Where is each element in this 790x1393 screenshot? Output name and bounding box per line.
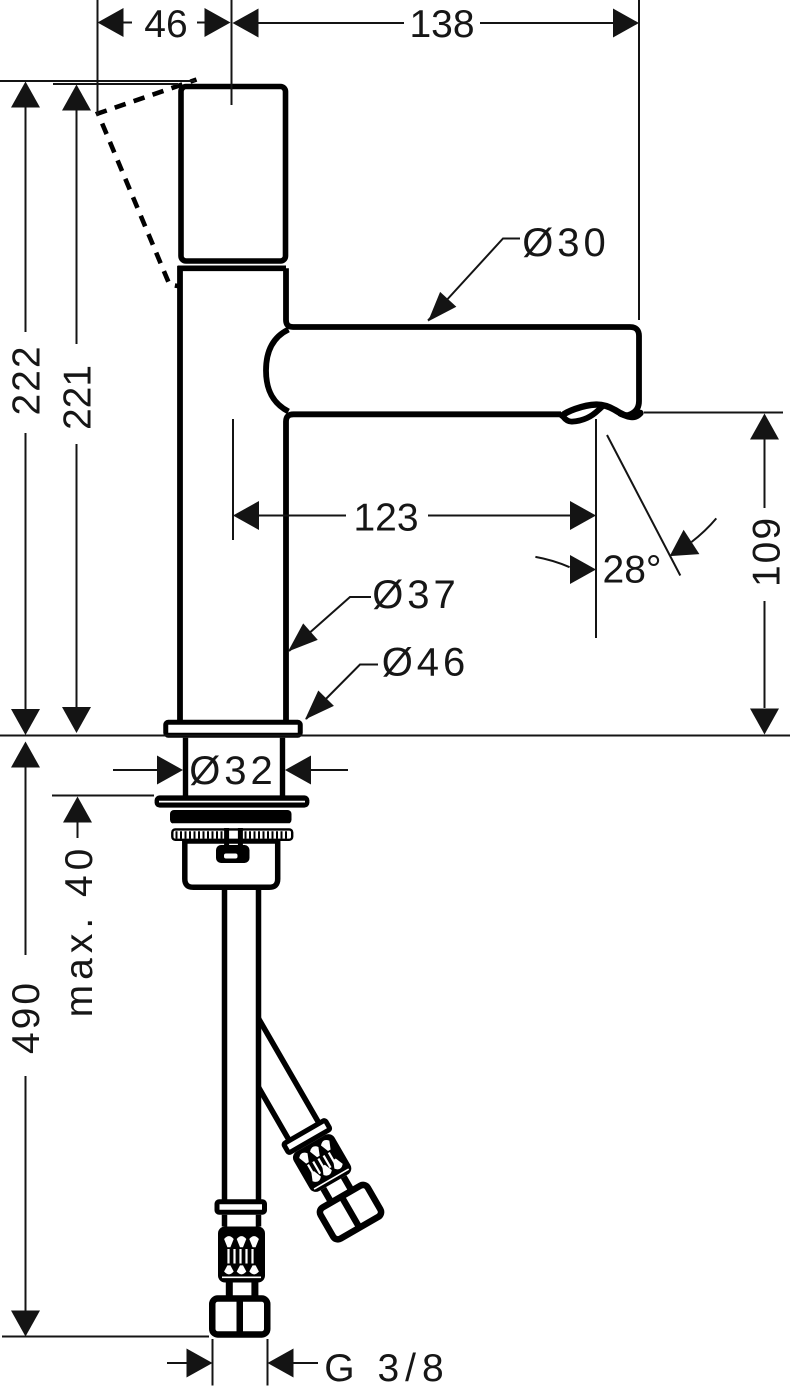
dim 123 lines [259,515,570,517]
pop-up rod clamp [216,845,250,863]
arrow 46 right [205,8,231,37]
vertical supply hose [212,886,267,1336]
arrow O46 [297,690,334,727]
arrow 46 left [98,8,124,37]
dim 109 extension line outlet [644,412,783,414]
arrow 490 bottom [11,1311,40,1337]
base flange [166,722,301,735]
faucet body and spout outline [98,80,641,797]
body collar band [178,265,286,271]
dim O32 lines [113,769,348,771]
svg-text:Ø32: Ø32 [189,749,277,793]
arrow G38 left [187,1349,213,1378]
spout bend inner curve [266,330,289,412]
dim G38 extension lines [213,1339,268,1386]
extension line hose nut bottom [2,1336,209,1338]
svg-text:Ø37: Ø37 [372,573,460,617]
leader O46 [306,665,378,720]
arrow 221 bottom [62,707,91,733]
knurled locknut ring [172,829,292,839]
vertical hose tube segment [225,1215,259,1227]
diagonal hose tube [229,1018,318,1139]
arrow 123 right [570,501,596,530]
arrow 222 top [11,82,40,108]
diagonal hose braid [290,1132,353,1195]
base shank sides [186,738,283,796]
dim 123 extension line axis [232,419,234,540]
pop-up rod stem [227,828,241,846]
body left edge [177,266,183,720]
arrow 490 top [11,742,40,768]
body right edge lower + spout bottom [286,414,561,720]
extension line top of tilted handle [0,80,195,82]
body right edge upper + spout top + spout right edge [286,268,639,415]
diagonal hose nut [318,1183,383,1241]
arrow angle left [570,555,596,584]
aerator lip [563,406,603,422]
faucet base mounting assembly [155,795,310,887]
diagonal hose crimp collar [283,1120,330,1153]
arrow 123 left [233,501,259,530]
arrow O37 [281,623,318,659]
arrow O30 [420,292,456,329]
arrow 138 right [613,9,639,38]
handle [181,87,286,262]
angle arc right [692,518,717,542]
dim 109 line [764,440,766,709]
dim 46 lines [123,22,205,24]
arrow 138 left [233,9,259,38]
vertical hose crimp collar [217,1202,265,1213]
arrow G38 right [268,1349,294,1378]
svg-text:221: 221 [57,365,100,430]
svg-text:Ø46: Ø46 [382,641,470,685]
svg-text:490: 490 [5,980,48,1054]
arrow O32 right [285,756,311,785]
rubber washer bar [155,795,310,807]
arrow angle right [662,530,700,568]
extension line top of handle [53,83,178,85]
dim max40 line [77,823,79,839]
vertical hose braid [218,1227,265,1283]
arrow max40 [63,797,92,823]
leader O30 [428,239,520,321]
handle tilted position (dashed) [98,80,197,287]
vertical hose neck [229,1283,255,1298]
base shank nut body [185,841,278,887]
arrow 222 bottom [11,709,40,735]
extension line outlet vertical [595,419,597,638]
arrow 109 top [750,414,779,440]
dim 222 line [25,108,27,710]
svg-text:46: 46 [144,3,187,46]
extension line faucet axis top [231,0,233,105]
svg-text:138: 138 [409,3,474,46]
svg-text:Ø30: Ø30 [522,221,610,265]
dim 221 line [76,111,78,708]
aerator wave [562,405,641,417]
metal washer bar [170,810,292,824]
vertical hose nut [212,1299,267,1335]
svg-text:28°: 28° [603,549,662,592]
extension line spout tip [638,0,640,320]
dim 490 line [25,768,27,1311]
arrow 109 bottom [750,709,779,735]
extension line washer top [52,795,154,797]
diagonal hose neck [323,1177,350,1200]
angle arc left [535,557,569,567]
svg-text:max. 40: max. 40 [58,844,101,1018]
vertical hose tube [227,886,257,1200]
countertop line [0,735,790,737]
svg-text:109: 109 [746,516,789,587]
svg-text:G 3/8: G 3/8 [324,1347,449,1390]
dim G38 lines [167,1362,318,1364]
dim 138 lines [258,22,614,24]
extension line handle offset left [97,0,99,116]
leader O37 [289,597,371,651]
diagonal supply hose (drawn first, behind vertical hose) [220,1013,384,1242]
svg-text:123: 123 [353,497,418,540]
arrow O32 left [157,756,183,785]
arrow 221 top [62,85,91,111]
svg-text:222: 222 [6,344,49,415]
spray angle 28 deg line [607,435,680,576]
